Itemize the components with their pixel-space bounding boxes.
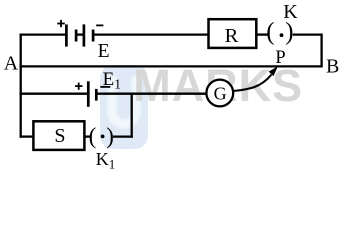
- plus sign of E: [57, 20, 65, 27]
- wire: K1 to riser: [113, 135, 133, 137]
- svg-text:): ): [106, 123, 114, 148]
- wire: left vertical A-rail: [20, 34, 22, 138]
- svg-text:E: E: [98, 41, 110, 62]
- svg-text:G: G: [214, 84, 227, 104]
- plate short (-): [92, 30, 95, 42]
- wire: riser from K1 branch up to E1 wire: [131, 93, 133, 138]
- resistor R1 box: [209, 19, 257, 48]
- svg-text:K: K: [283, 1, 298, 23]
- cell link wire: [76, 33, 84, 35]
- minus sign of E1: [100, 86, 110, 88]
- wire: battery E1 to galvanometer: [96, 93, 206, 95]
- svg-text:S: S: [54, 125, 65, 147]
- plate long (+): [65, 24, 68, 46]
- svg-text:(: (: [266, 19, 274, 46]
- battery E: [66, 24, 93, 46]
- plus sign of E1: [75, 83, 82, 90]
- jockey arrow from G to P: [233, 66, 277, 91]
- svg-text:A: A: [4, 52, 19, 74]
- galvanometer G: [206, 80, 233, 107]
- wire A-B (potentiometer wire): [20, 65, 323, 67]
- plate short: [75, 30, 78, 42]
- plate long (+): [87, 81, 90, 107]
- plate long: [83, 24, 86, 46]
- wire: key K to top-right corner, down to B: [293, 35, 322, 67]
- wire: bottom branch left segment: [20, 135, 34, 137]
- key K symbol ( . ): [266, 19, 293, 46]
- resistance box S: [33, 121, 84, 150]
- plate short (-): [95, 89, 98, 101]
- battery E1: [88, 81, 96, 107]
- wire: R to key K: [256, 33, 267, 35]
- svg-text:B: B: [326, 55, 339, 77]
- svg-text:R: R: [225, 25, 239, 47]
- svg-text:(: (: [89, 123, 97, 148]
- wire: battery E to resistor R: [93, 33, 208, 35]
- wire: top wire from left rail to battery E: [20, 33, 66, 35]
- minus sign of E: [96, 24, 103, 26]
- svg-text:P: P: [275, 48, 285, 68]
- wire: S to key K1: [84, 135, 90, 137]
- wire: left rail to battery E1: [20, 93, 87, 95]
- watermark logo (light blue rounded square with white U): [100, 65, 148, 149]
- key K1 symbol ( . ): [89, 123, 114, 148]
